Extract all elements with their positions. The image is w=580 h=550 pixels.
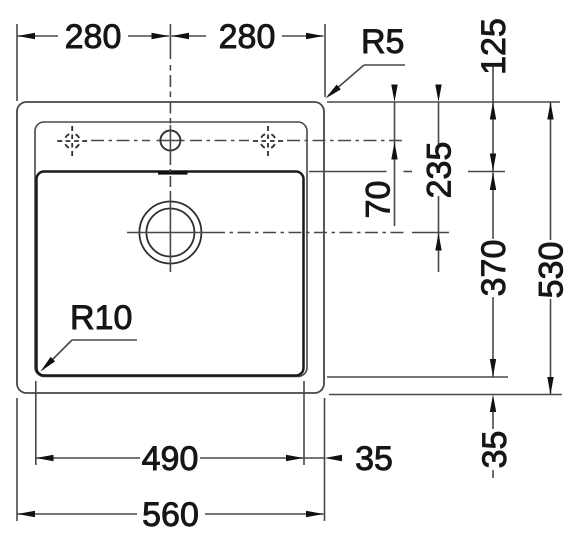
dimension 235 line upper <box>438 102 440 144</box>
overflow slot mark <box>158 171 188 174</box>
left knockout mark vertical dashes <box>71 126 73 156</box>
dimension 125 arrow bottom <box>490 154 496 172</box>
svg-text:530: 530 <box>533 242 571 299</box>
svg-text:280: 280 <box>219 18 276 56</box>
vertical centerline solid top <box>169 24 171 59</box>
dimension 35 vertical tail lower <box>492 470 494 478</box>
R10 leader underline <box>72 339 137 341</box>
dimension 490 line right <box>200 457 304 459</box>
R5 leader arrowhead <box>326 85 341 99</box>
drain axis dash-dot extension right <box>212 232 407 234</box>
dimension 280 right arrows <box>172 33 190 39</box>
svg-text:280: 280 <box>65 18 122 56</box>
dimension 280 left arrows <box>18 33 36 39</box>
extension line bowl top right segment a2 <box>404 171 413 173</box>
svg-text:490: 490 <box>142 440 199 478</box>
extension line outer bottom right <box>329 394 562 396</box>
faucet axis dash-dot middle-right <box>190 140 249 142</box>
vertical centerline dash-dot upper <box>169 65 171 127</box>
middle faucet hole vertical axis <box>169 125 171 155</box>
svg-text:35: 35 <box>476 431 514 469</box>
right knockout mark horizontal dashes <box>253 140 283 142</box>
extension line bowl top right segment b <box>468 171 505 173</box>
dimension 530 line lower <box>550 299 552 395</box>
svg-text:235: 235 <box>421 142 459 199</box>
dimension 370 arrow bottom <box>490 359 496 377</box>
dimension 35 horizontal arrow <box>325 455 343 461</box>
dimension 35 vertical tail upper <box>492 412 494 430</box>
middle faucet hole <box>160 131 180 151</box>
extension line bowl bottom right <box>327 376 508 378</box>
bowl outline <box>37 172 304 376</box>
dimension 370 line upper <box>492 173 494 240</box>
svg-text:70: 70 <box>360 181 398 219</box>
extension line bottom outer left <box>16 398 18 521</box>
dimension 70 line <box>394 102 396 226</box>
drain axis long dash at 235 dimension <box>412 232 449 234</box>
sink outer edge <box>17 102 324 393</box>
dimension 490 line left <box>36 457 140 459</box>
dimension 235 arrow top <box>435 85 441 103</box>
faucet axis dash-dot line <box>91 140 150 142</box>
drain outer circle <box>139 202 201 264</box>
svg-text:R5: R5 <box>361 23 404 61</box>
dimension 280 right line <box>172 35 207 37</box>
dimension 530 arrow bottom <box>547 377 553 395</box>
dimension 70 arrow bottom <box>391 142 397 160</box>
right knockout mark circle <box>261 134 276 149</box>
sink deck rim line <box>35 122 307 377</box>
extension line bottom bowl left <box>35 381 37 465</box>
vertical centerline dash-dot lower <box>169 154 171 192</box>
R5 leader diagonal <box>328 65 364 96</box>
svg-text:R10: R10 <box>70 299 132 337</box>
dimension 530 arrow top <box>547 102 553 120</box>
dimension 560 line right <box>205 513 324 515</box>
dimension 235 line lower <box>438 196 440 272</box>
extension line top left <box>16 24 18 101</box>
dimension 370 line lower <box>492 297 494 377</box>
svg-text:125: 125 <box>475 18 513 75</box>
extension line bowl top right segment a <box>309 171 387 173</box>
dimension 35 horizontal line <box>304 457 325 459</box>
dimension 35 vertical arrow <box>490 395 496 413</box>
dimension 235 arrow bottom <box>435 233 441 251</box>
dimension 530 line upper <box>550 102 552 240</box>
dimension 370 arrow top <box>490 173 496 191</box>
right knockout mark vertical dashes <box>267 126 269 156</box>
left knockout mark horizontal dashes <box>57 140 87 142</box>
dimension 560 line left <box>18 513 138 515</box>
R5 leader underline <box>364 64 405 66</box>
drain horizontal axis <box>127 232 212 234</box>
dimension 560 arrows <box>18 511 36 517</box>
extension line bottom outer right <box>324 398 326 521</box>
svg-text:35: 35 <box>355 440 393 478</box>
dimension 125 arrow top <box>490 102 496 120</box>
dimension 125 line <box>492 102 494 171</box>
drain vertical axis <box>169 192 171 272</box>
faucet axis solid through middle hole <box>157 140 185 142</box>
dimension 125 tail <box>492 66 494 102</box>
extension line top right <box>324 24 326 97</box>
dimension 490 arrows <box>36 455 54 461</box>
dimension 280 left line <box>17 35 58 37</box>
R10 leader arrowhead <box>41 357 56 372</box>
drain inner circle <box>146 209 194 257</box>
dimension 70 arrow top <box>391 85 397 103</box>
R10 leader diagonal <box>43 340 72 369</box>
svg-text:560: 560 <box>142 496 199 534</box>
faucet axis dash-dot beyond right mark <box>287 140 404 142</box>
extension line right of top edge <box>327 101 560 103</box>
left knockout mark circle <box>65 134 80 149</box>
svg-text:370: 370 <box>475 240 513 297</box>
extension line bottom bowl right <box>303 381 305 465</box>
